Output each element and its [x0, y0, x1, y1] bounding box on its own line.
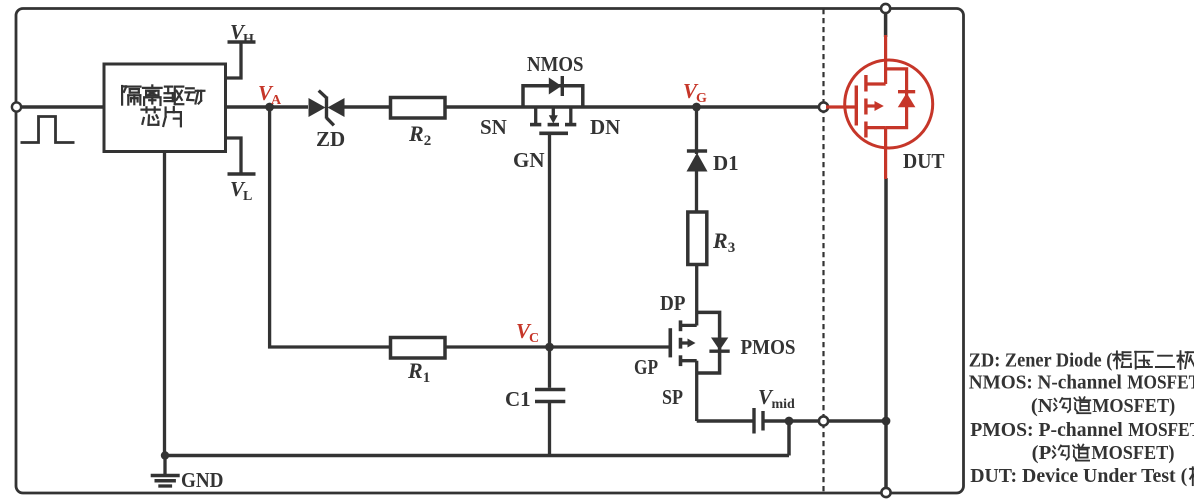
svg-text:NMOS: N-channel: NMOS: N-channel	[969, 371, 1122, 393]
wire SP to Vmid source	[697, 419, 754, 423]
legend line 3 N-channel CJK	[1031, 396, 1175, 417]
top drain terminal (open circle)	[881, 4, 890, 13]
NMOS drain contact bar	[565, 123, 576, 127]
label SP	[662, 385, 683, 409]
svg-text:R2: R2	[408, 121, 431, 149]
PMOS body stub with arrow	[681, 339, 696, 348]
wire VG down to D1	[695, 107, 698, 154]
svg-text:GN: GN	[513, 148, 545, 172]
resistor R1	[391, 338, 446, 359]
svg-text:MOSFET: MOSFET	[1127, 371, 1194, 393]
PMOS body-diode bypass wire	[697, 312, 720, 373]
svg-text:MOSFET): MOSFET)	[1091, 443, 1174, 464]
capacitor C1	[535, 390, 565, 402]
wire Vmid to DUT source	[763, 419, 886, 423]
ground bus riser to Vmid node	[787, 421, 791, 456]
svg-text:NMOS: NMOS	[527, 52, 584, 76]
label DUT	[903, 149, 945, 173]
resistor R2	[391, 98, 446, 119]
svg-text:L: L	[243, 189, 252, 204]
svg-text:ZD: ZD	[316, 127, 345, 151]
label PMOS	[741, 335, 796, 359]
chip label text line 2 (chip)	[142, 107, 181, 126]
PMOS body contact bar	[679, 338, 683, 349]
legend line 6 DUT	[970, 465, 1194, 487]
label ZD	[316, 127, 345, 151]
label C1	[505, 387, 531, 411]
svg-text:R3: R3	[712, 228, 735, 256]
wire DUT source to bottom terminal	[884, 178, 888, 492]
label R3	[712, 228, 735, 256]
svg-text:DP: DP	[660, 291, 686, 315]
svg-text:ZD: Zener Diode (: ZD: Zener Diode (	[969, 349, 1113, 371]
NMOS body diode	[549, 76, 563, 96]
PMOS source lead down	[695, 361, 698, 421]
svg-text:C1: C1	[505, 387, 531, 411]
legend line 2 NMOS	[969, 371, 1194, 393]
svg-text:MOSFET: MOSFET	[1128, 419, 1194, 441]
label GND	[181, 468, 224, 492]
label VA (red)	[258, 81, 282, 108]
label D1	[713, 151, 739, 175]
NMOS gate plate	[539, 132, 568, 136]
label VC (red)	[516, 319, 539, 346]
input terminal (open circle)	[12, 102, 21, 111]
svg-text:DUT: DUT	[903, 149, 945, 173]
VL supply bar	[228, 172, 256, 175]
label NMOS	[527, 52, 584, 76]
wire VA down to R1 row	[270, 107, 390, 347]
svg-text:G: G	[696, 91, 707, 106]
PMOS source contact bar	[679, 355, 683, 366]
svg-text:PMOS: P-channel: PMOS: P-channel	[970, 419, 1123, 441]
svg-text:GND: GND	[181, 468, 224, 492]
enclosure frame of test fixture	[16, 9, 964, 494]
svg-text:GP: GP	[634, 355, 658, 379]
svg-text:A: A	[271, 93, 282, 108]
wire C1 down to ground bus	[548, 403, 551, 456]
node VC junction dot	[545, 343, 554, 352]
label VL	[230, 177, 252, 204]
label SN	[480, 115, 507, 139]
label VG (red)	[683, 79, 707, 106]
svg-text:H: H	[243, 32, 254, 47]
legend line 1 ZD	[969, 349, 1194, 371]
NMOS body-diode bypass wire	[523, 86, 583, 107]
wire R3 to PMOS drain	[695, 265, 698, 326]
wire D1 to R3	[695, 171, 698, 212]
PMOS source stub	[681, 359, 697, 362]
PMOS gate plate GP	[668, 328, 672, 357]
svg-text:PMOS: PMOS	[741, 335, 796, 359]
ground node dot	[161, 451, 169, 459]
zener diode ZD	[309, 91, 345, 126]
wire R1 row to PMOS gate	[445, 345, 670, 348]
ground bus wire	[165, 454, 790, 458]
legend line 5 P-channel CJK	[1032, 443, 1175, 464]
PMOS body diode	[709, 338, 729, 352]
wire chip to node VA	[226, 105, 309, 109]
svg-text:D1: D1	[713, 151, 739, 175]
gate terminal open circle	[819, 102, 828, 111]
DUT power MOSFET (red)	[826, 35, 933, 179]
VL supply pin wire	[226, 138, 242, 174]
voltage source Vmid	[754, 408, 763, 434]
NMOS body contact bar	[548, 123, 559, 127]
svg-text:(N: (N	[1031, 396, 1053, 417]
chip label text line 1 (isolation driver)	[122, 85, 204, 105]
ground symbol	[151, 456, 180, 487]
label DN	[590, 115, 620, 139]
svg-text:C: C	[529, 331, 539, 346]
wire R2 to VG	[445, 105, 824, 109]
label VH	[230, 20, 254, 47]
wire ZD to R2	[345, 105, 391, 109]
NMOS gate lead GN	[548, 133, 551, 347]
NMOS source stub SN	[534, 107, 537, 123]
svg-text:MOSFET): MOSFET)	[1092, 396, 1175, 417]
node DUT source junction dot	[882, 417, 891, 426]
diode D1	[687, 151, 708, 172]
svg-text:DUT: Device Under Test (: DUT: Device Under Test (	[970, 465, 1187, 487]
VH supply bar	[228, 40, 256, 43]
driver chip U1 box	[104, 64, 226, 152]
wire VC down to C1	[548, 347, 551, 388]
PMOS drain stub	[681, 324, 697, 327]
node VA junction dot	[265, 103, 274, 112]
label R1	[407, 358, 430, 386]
legend line 4 PMOS	[970, 419, 1194, 441]
label GN	[513, 148, 545, 172]
label Vmid	[758, 385, 795, 412]
svg-text:R1: R1	[407, 358, 430, 386]
NMOS drain stub DN	[569, 107, 572, 123]
source terminal open circle	[819, 416, 828, 425]
NMOS body stub with arrow	[549, 107, 558, 124]
dashed package boundary line	[822, 9, 824, 492]
pulse input symbol	[21, 117, 75, 143]
resistor R3	[688, 212, 707, 265]
node VG junction dot	[692, 103, 701, 112]
svg-text:(P: (P	[1032, 443, 1052, 464]
chip ground pin wire	[163, 152, 166, 456]
bottom source terminal (open circle)	[881, 488, 890, 497]
svg-text:SN: SN	[480, 115, 507, 139]
NMOS source contact bar	[530, 123, 541, 127]
VH supply pin wire	[226, 43, 242, 79]
node Vmid output dot	[785, 417, 794, 426]
label GP	[634, 355, 658, 379]
label R2	[408, 121, 431, 149]
svg-text:mid: mid	[772, 397, 796, 412]
svg-text:DN: DN	[590, 115, 620, 139]
svg-text:SP: SP	[662, 385, 683, 409]
PMOS drain contact bar	[679, 320, 683, 331]
wire DUT drain to top terminal	[884, 11, 888, 37]
wire input to chip	[16, 105, 104, 109]
label DP	[660, 291, 686, 315]
